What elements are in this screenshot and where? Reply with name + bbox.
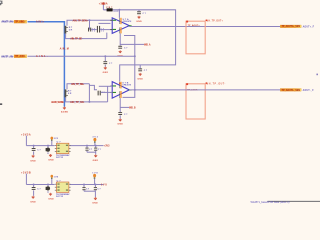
svg-text:AIN1+: AIN1+: [36, 20, 45, 23]
svg-text:AIN_TP_SEN+: AIN_TP_SEN+: [73, 19, 89, 22]
svg-text:AOUT+_F: AOUT+_F: [303, 25, 315, 28]
svg-text:TP_AOUT+: TP_AOUT+: [188, 24, 201, 27]
svg-text:GND: GND: [137, 78, 143, 80]
svg-text:SOT23: SOT23: [56, 196, 64, 198]
svg-text:TP_AIN1+: TP_AIN1+: [15, 21, 26, 24]
svg-text:AGND_SENSE: AGND_SENSE: [51, 101, 64, 104]
svg-text:600R: 600R: [113, 11, 119, 13]
svg-text:GND: GND: [117, 124, 123, 126]
svg-text:AIN+/TP_AIN+: AIN+/TP_AIN+: [1, 20, 14, 24]
svg-text:AIN-/TP_AIN-: AIN-/TP_AIN-: [1, 54, 14, 58]
svg-text:AGND: AGND: [61, 110, 68, 113]
svg-text:OPA1678: OPA1678: [122, 84, 131, 87]
svg-text:AOUT-_F: AOUT-_F: [303, 89, 315, 92]
svg-text:1V8: 1V8: [101, 184, 107, 186]
svg-text:TP_AOUT1-_SEN: TP_AOUT1-_SEN: [282, 89, 301, 92]
svg-text:0R: 0R: [68, 93, 72, 95]
svg-text:GND: GND: [48, 199, 54, 201]
svg-text:TP_AIN1-: TP_AIN1-: [15, 55, 26, 58]
svg-text:GND: GND: [103, 72, 109, 74]
svg-text:AIN_TP_SN-: AIN_TP_SN-: [70, 101, 85, 104]
svg-text:MH_TP_OUT+: MH_TP_OUT+: [206, 20, 223, 22]
svg-text:GND: GND: [48, 160, 54, 162]
svg-text:AIN_TP_SN+: AIN_TP_SN+: [71, 83, 85, 86]
svg-text:GND: GND: [30, 160, 36, 162]
svg-text:W12871_base#PCB base (Rev1.0): W12871_base#PCB base (Rev1.0): [251, 200, 290, 204]
svg-text:GND: GND: [30, 201, 36, 203]
svg-text:MH_TP_OUT-: MH_TP_OUT-: [206, 84, 225, 86]
svg-text:0R: 0R: [69, 30, 73, 32]
svg-text:GND: GND: [136, 21, 142, 23]
svg-text:+3V3: +3V3: [104, 145, 110, 147]
svg-text:AIN_M: AIN_M: [60, 48, 69, 51]
svg-text:OPA1678: OPA1678: [123, 20, 132, 23]
svg-text:TP_AOUT1+_SEN: TP_AOUT1+_SEN: [282, 25, 301, 28]
svg-text:AIN_TP_SE-: AIN_TP_SE-: [70, 38, 82, 41]
svg-text:GND: GND: [92, 203, 98, 205]
svg-text:SOT23: SOT23: [56, 157, 64, 159]
svg-text:GND: GND: [93, 160, 99, 162]
svg-text:MID_B: MID_B: [129, 107, 136, 109]
svg-text:MID_A: MID_A: [144, 43, 151, 46]
